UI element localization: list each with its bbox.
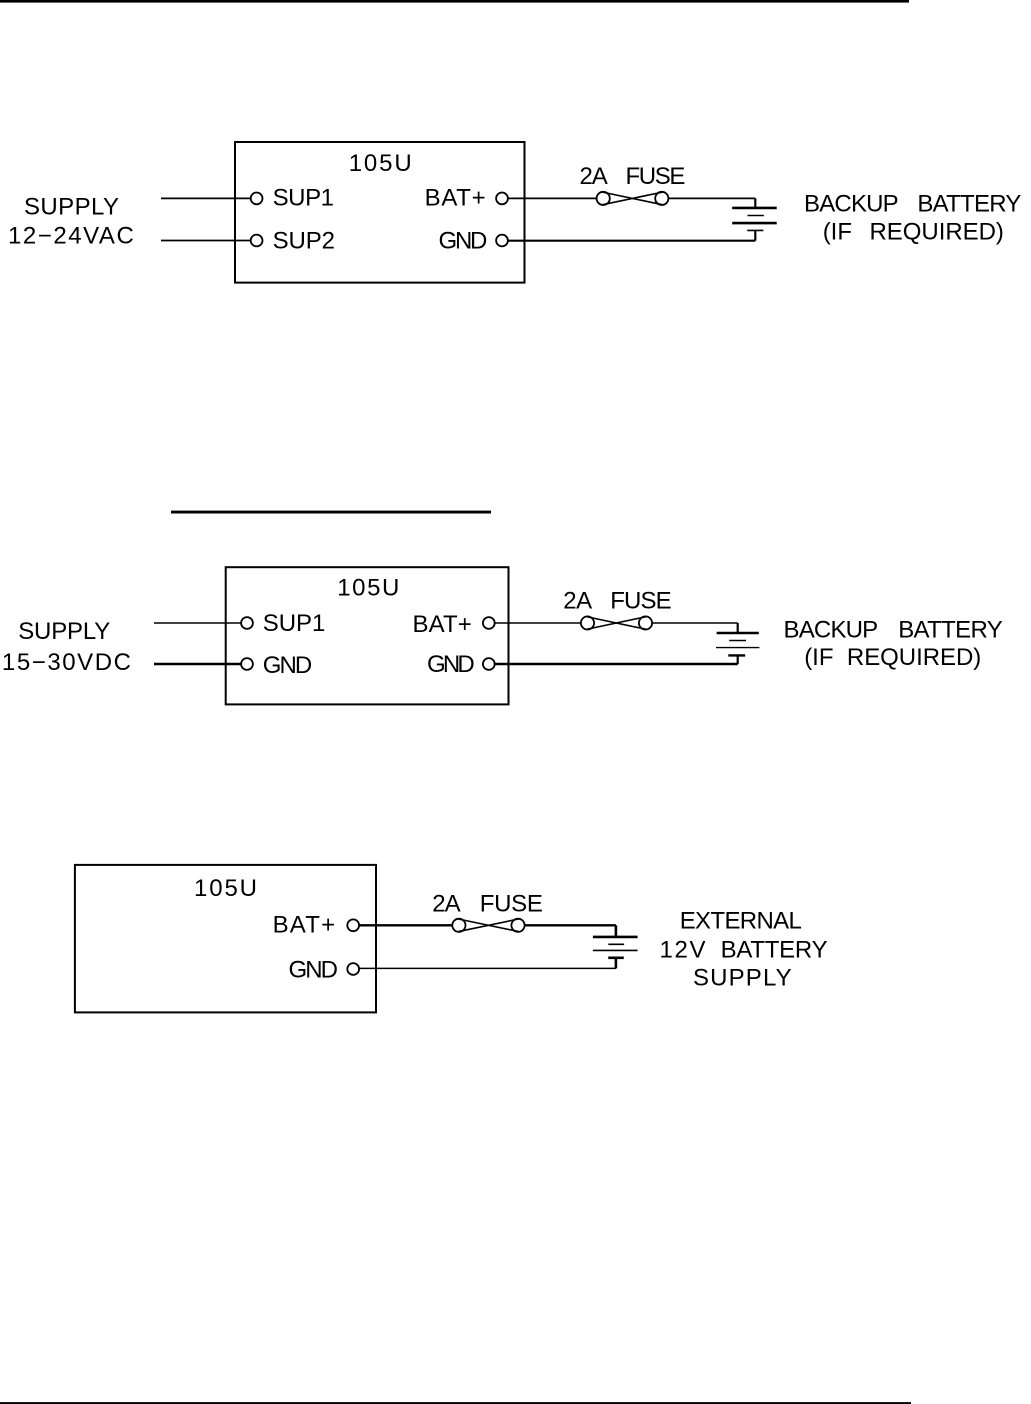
svg-text:105U: 105U (337, 575, 399, 602)
svg-text:SUP1: SUP1 (273, 185, 334, 212)
svg-text:2A: 2A (563, 588, 592, 615)
svg-text:GND: GND (263, 652, 313, 679)
svg-text:SUP1: SUP1 (263, 610, 326, 637)
svg-text:REQUIRED): REQUIRED) (847, 644, 981, 671)
svg-text:(IF: (IF (804, 644, 833, 671)
svg-text:GND: GND (439, 227, 488, 254)
svg-text:BATTERY: BATTERY (898, 617, 1003, 644)
svg-text:2A: 2A (432, 891, 461, 918)
svg-text:GND: GND (289, 957, 339, 984)
svg-text:2A: 2A (580, 163, 608, 190)
svg-text:SUPPLY: SUPPLY (18, 618, 110, 645)
svg-text:FUSE: FUSE (480, 891, 543, 918)
svg-text:BAT+: BAT+ (425, 185, 486, 212)
svg-text:GND: GND (427, 651, 475, 678)
svg-text:(IF: (IF (823, 219, 852, 246)
svg-text:REQUIRED): REQUIRED) (870, 219, 1004, 246)
svg-text:BACKUP: BACKUP (804, 191, 899, 218)
svg-text:12V: 12V (660, 936, 706, 963)
svg-text:SUP2: SUP2 (273, 227, 335, 254)
svg-text:105U: 105U (349, 150, 412, 177)
svg-text:SUPPLY: SUPPLY (24, 194, 119, 221)
svg-text:15−30VDC: 15−30VDC (2, 649, 131, 676)
svg-text:105U: 105U (194, 875, 257, 902)
svg-text:SUPPLY: SUPPLY (693, 965, 792, 992)
svg-text:BAT+: BAT+ (273, 912, 336, 939)
svg-text:FUSE: FUSE (610, 588, 671, 615)
svg-text:12−24VAC: 12−24VAC (8, 223, 134, 250)
svg-text:BAT+: BAT+ (413, 611, 472, 638)
svg-text:FUSE: FUSE (626, 163, 686, 190)
svg-text:BACKUP: BACKUP (784, 617, 879, 644)
svg-text:EXTERNAL: EXTERNAL (680, 908, 802, 935)
svg-text:BATTERY: BATTERY (721, 936, 828, 963)
svg-text:BATTERY: BATTERY (917, 191, 1021, 218)
